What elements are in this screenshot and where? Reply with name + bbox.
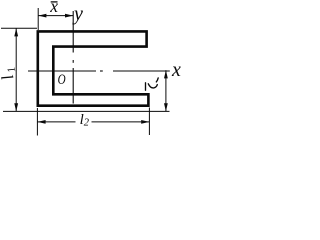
l2 left arrow [37, 120, 45, 124]
l2 dimension: left extension line [36, 108, 38, 136]
bottom extension line (common baseline) [3, 110, 170, 112]
l2 dimension line left part [37, 121, 75, 123]
y dim label (rotated y glyph, drawn) [146, 78, 159, 90]
xbar left arrow [38, 14, 46, 18]
svg-text:O: O [58, 72, 66, 88]
l1 dimension: top extension line [1, 27, 37, 29]
y dim bottom arrow [164, 103, 168, 111]
xbar dimension: left extension line [37, 8, 39, 30]
l1 bottom arrow [14, 103, 18, 111]
y dim top arrow [164, 70, 168, 78]
l2 right extension line [148, 108, 150, 136]
channel section outline [38, 31, 149, 105]
x axis (dash-dot centerline) [28, 70, 170, 72]
l2 right arrow [141, 120, 149, 124]
xbar overbar [51, 1, 58, 3]
l2 dimension line right part [92, 121, 150, 123]
xbar dimension line [38, 15, 73, 17]
svg-text:y: y [72, 3, 83, 25]
l1 dimension line [15, 28, 17, 111]
l1 top arrow [14, 28, 18, 36]
xbar right arrow [65, 14, 73, 18]
y axis (dash-dot centerline) [72, 11, 74, 104]
svg-text:x: x [171, 59, 181, 81]
y dimension (right): dimension line [165, 70, 167, 111]
